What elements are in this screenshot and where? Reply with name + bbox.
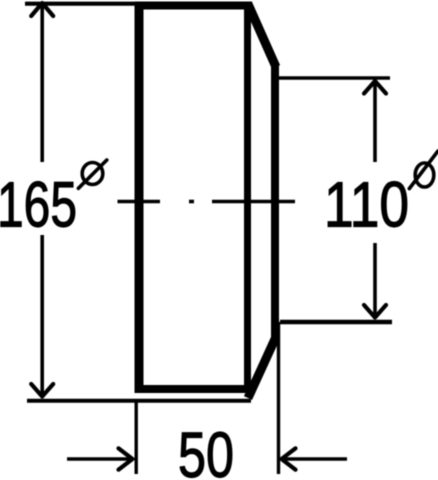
svg-text:165: 165: [0, 169, 77, 241]
centerline dot: [189, 200, 194, 204]
extension line bottom (110): [280, 320, 392, 324]
arrowhead 110 top: [364, 81, 386, 94]
diameter symbol of 110: slash: [409, 151, 438, 189]
diameter symbol of 110: circle: [415, 163, 434, 187]
extension line top (165): [25, 2, 139, 6]
arrowhead 165 bottom: [31, 384, 53, 397]
body outline: top edge: [135, 2, 253, 10]
diameter symbol of 165: circle: [82, 163, 103, 185]
arrowhead 110 bottom: [364, 305, 386, 318]
dimension line 165 lower segment: [40, 235, 44, 395]
body outline: top chamfer: [248, 4, 276, 67]
dimension arrow 50 left shaft: [67, 457, 131, 461]
dimension line 110 upper segment: [373, 81, 377, 162]
body outline: flange face edge: [271, 63, 279, 343]
arrowhead 50 right: [282, 448, 296, 469]
svg-text:110: 110: [324, 169, 409, 241]
extension line bottom (165): [27, 399, 251, 403]
extension line right (50): [277, 322, 280, 474]
arrowhead 50 left: [119, 448, 133, 469]
dimension line 165 upper segment: [40, 6, 44, 162]
diameter symbol of 165: slash: [78, 160, 106, 188]
dimension arrow 50 right shaft: [284, 457, 347, 461]
svg-text:50: 50: [178, 419, 234, 480]
extension line top (110): [276, 76, 390, 79]
centerline dash 2: [212, 200, 295, 204]
dimension line 110 lower segment: [373, 243, 377, 316]
extension line left (50): [134, 401, 137, 474]
body outline: inner right edge: [244, 6, 251, 390]
body outline: bottom edge: [135, 385, 252, 393]
body outline: bottom chamfer: [248, 339, 275, 398]
arrowhead 165 top: [31, 3, 53, 16]
body outline: left edge: [135, 2, 144, 394]
centerline dash 1: [118, 200, 161, 204]
